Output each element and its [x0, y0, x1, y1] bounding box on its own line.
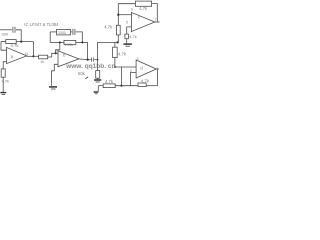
resistor R9 4.7k c feedback [135, 1, 151, 6]
node row right [116, 41, 118, 43]
wire R8 to d input [115, 58, 136, 67]
op-amp U1b [58, 51, 79, 67]
wire row to R8 [114, 42, 116, 47]
svg-text:www. qq1bb. cn: www. qq1bb. cn [65, 63, 115, 70]
node output a [32, 55, 34, 57]
svg-text:4.7k: 4.7k [11, 43, 20, 48]
svg-text:4.7k: 4.7k [129, 34, 137, 39]
wire top branch left [50, 31, 56, 33]
wire row mid [115, 85, 138, 87]
svg-text:14: 14 [24, 52, 28, 56]
wire input to node [16, 30, 21, 42]
wire row right [146, 85, 157, 87]
svg-text:6: 6 [131, 8, 133, 12]
node bottom row [120, 85, 122, 87]
wire row left to ground [97, 86, 99, 92]
ground b [49, 86, 57, 88]
svg-text:4.7k: 4.7k [141, 78, 150, 83]
resistor R6 50k [96, 71, 100, 79]
wire feedback row a [1, 41, 6, 43]
op-amp U1c [131, 12, 154, 31]
wire divider vertical d [121, 67, 123, 86]
svg-text:4.7k: 4.7k [118, 51, 127, 56]
wire to ground a [2, 77, 4, 92]
capacitor C1 [12, 27, 14, 33]
svg-text:4.7k: 4.7k [2, 79, 10, 84]
wire d inverting [131, 72, 137, 85]
wire top branch right [76, 32, 83, 43]
resistor R10 4.7k c bias [125, 34, 129, 39]
wire to inverting input a [1, 42, 7, 51]
wire c feedback right [152, 4, 158, 22]
wire feedback down leg b [56, 42, 60, 53]
resistor R4 3300 [57, 29, 71, 35]
wire d feedback down [157, 69, 159, 86]
node b inverting [55, 52, 57, 54]
wire R7 to c node [117, 15, 119, 26]
wire to capacitor C2 [71, 31, 73, 33]
svg-text:1k: 1k [40, 60, 44, 64]
wire bottom row [98, 85, 103, 87]
ground 50k [94, 79, 101, 81]
node A [20, 41, 22, 43]
resistor R5 100k [64, 40, 76, 44]
wire feedback vertical b [87, 42, 89, 59]
ground bottom [94, 91, 99, 93]
wire input left [0, 29, 12, 31]
node network left [59, 41, 61, 43]
ground c [123, 43, 131, 45]
wire R7 to row [117, 35, 119, 43]
svg-text:9: 9 [56, 49, 58, 53]
svg-text:4.7k: 4.7k [105, 79, 114, 84]
wire network left vertical [49, 32, 51, 43]
capacitor C2 [72, 29, 74, 35]
svg-text:300: 300 [2, 31, 9, 36]
svg-text:4.7k: 4.7k [139, 6, 148, 11]
svg-text:IC LF347 & TL084: IC LF347 & TL084 [24, 22, 59, 27]
wire c output [155, 21, 160, 23]
wire R10 to ground [126, 39, 128, 44]
wire R3 to b input [48, 53, 58, 57]
wire down leg to 50k [97, 60, 99, 71]
capacitor C3 [91, 58, 93, 62]
svg-text:3: 3 [137, 57, 139, 61]
resistor R3 1k [39, 55, 48, 59]
wire d output [156, 68, 159, 70]
resistor R11 4.7k [103, 84, 115, 88]
svg-text:5: 5 [126, 20, 128, 24]
node c inverting [117, 14, 119, 16]
node after cap [97, 59, 99, 61]
wire output a [27, 55, 39, 57]
node d input [114, 66, 116, 68]
resistor R7 4.7k upper divider [116, 25, 120, 35]
svg-text:7: 7 [155, 18, 157, 22]
node output b [87, 59, 89, 61]
wire bottom row b network [50, 41, 64, 43]
svg-text:50k: 50k [78, 71, 86, 76]
wire c non-inverting [127, 27, 132, 34]
op-amp U1d [136, 60, 156, 78]
svg-text:100k: 100k [65, 42, 74, 47]
wire c feedback up [118, 4, 135, 15]
node network right [81, 41, 83, 43]
wire cap to junction [94, 59, 98, 61]
wire c inverting input [118, 14, 131, 16]
resistor R1 4.7k feedback a [6, 40, 16, 44]
svg-text:3300: 3300 [58, 31, 66, 35]
ground a [0, 92, 6, 94]
resistor R2 4.7k to ground [1, 69, 5, 77]
resistor R12 4.7k d feedback [138, 83, 146, 87]
wiper mark [85, 77, 88, 79]
wire output b [79, 58, 91, 61]
wire non-inverting a [3, 62, 6, 69]
wire feedback vertical a [32, 42, 34, 57]
resistor R8 4.7k lower divider [113, 47, 118, 57]
svg-text:c: c [138, 14, 140, 19]
wire non-inverting b to ground [52, 64, 59, 86]
wire row to feedback leg [76, 41, 88, 43]
wire 50k to ground [97, 78, 99, 79]
wire up leg to row [98, 42, 119, 59]
op-amp U1a [7, 47, 27, 63]
svg-text:4.7k: 4.7k [104, 24, 113, 29]
